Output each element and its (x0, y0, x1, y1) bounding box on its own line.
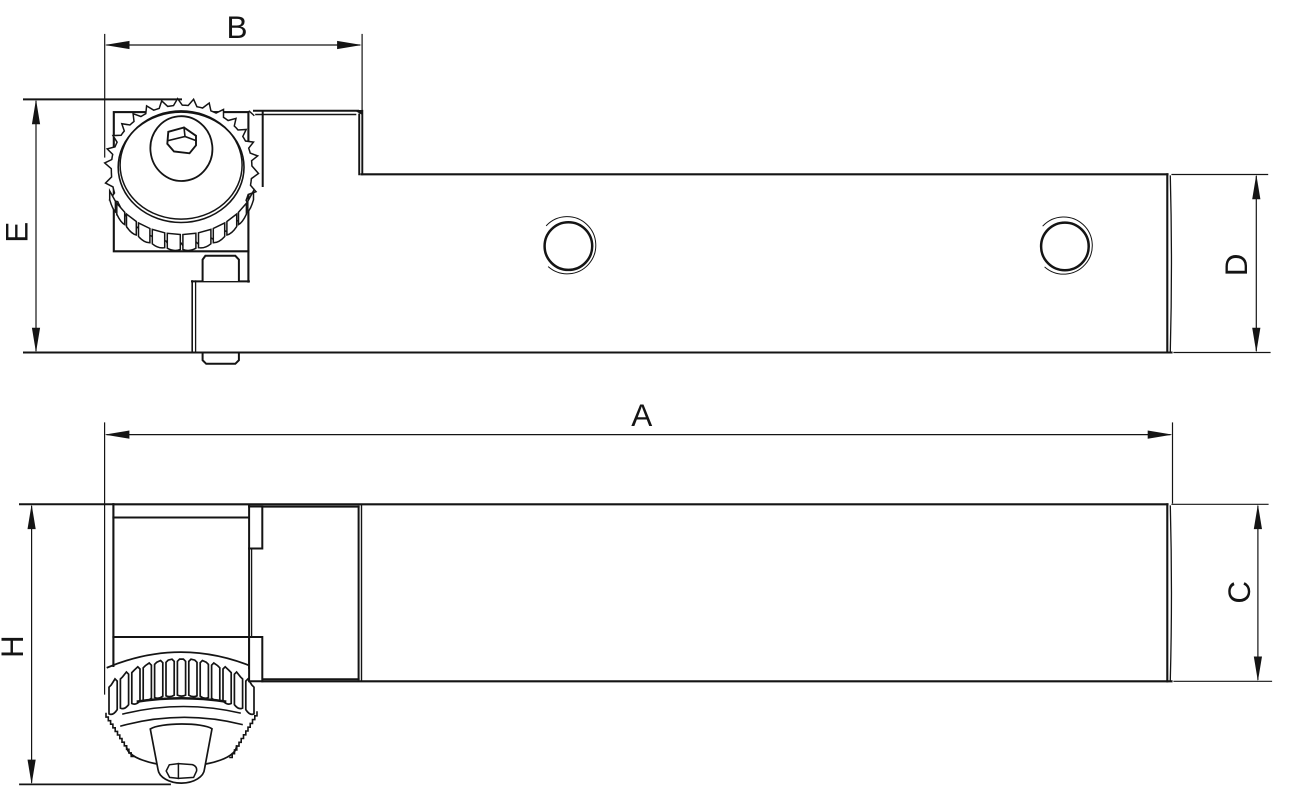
dimension B: left extension line (104, 35, 106, 158)
shank step section (bottom view): top edge (262, 506, 358, 508)
dimension E: bottom arrowhead (32, 328, 40, 353)
dimension C: top arrowhead (1254, 504, 1262, 529)
dimension D: bottom extension line (1174, 352, 1270, 354)
threaded hole 2 (top view): bore circle (1041, 223, 1089, 271)
main bar (top view): bottom edge (192, 351, 1172, 353)
knurled knob (bottom view): band bottom arc (138, 698, 225, 701)
clamp block (top view): lower-left double edge inner (195, 281, 197, 352)
knurled knob (bottom view): top arc (108, 652, 256, 668)
dimension B: left arrowhead (105, 41, 130, 49)
svg-text:E: E (0, 222, 35, 243)
dimension A: left extension line (104, 423, 106, 694)
head block (bottom view): right edge (248, 505, 250, 668)
dimension H: dimension line (31, 507, 33, 783)
shank step section (bottom view): right edge outer (361, 504, 363, 681)
dimension A: left arrowhead (105, 431, 130, 439)
dimension D: top arrowhead (1252, 175, 1260, 200)
knurled knob (bottom view): hex socket (166, 764, 196, 779)
dimension E: top arrowhead (32, 99, 40, 124)
dimension D: top extension line (1172, 174, 1268, 176)
threaded hole 2 (top view): thread arc (1043, 217, 1092, 274)
svg-text:A: A (631, 397, 652, 433)
knurled screw (top view): head rim outer ellipse (118, 112, 244, 222)
knurled screw (top view): head rim inner ellipse (120, 111, 242, 219)
main bar (bottom view): bottom edge (262, 680, 1171, 682)
clamp block (top view): square housing (114, 112, 249, 251)
main bar (top view): right end face (1166, 174, 1168, 352)
dimension H: bottom extension line (20, 783, 170, 785)
head block (bottom view): left edge (112, 504, 114, 666)
main bar (top view): top edge (361, 173, 1167, 175)
threaded hole 1 (top view): bore circle (545, 222, 593, 270)
main bar (bottom view): right end face (1166, 504, 1168, 681)
main bar (top view): right end chamfer arc (1170, 176, 1171, 351)
svg-text:C: C (1221, 581, 1257, 604)
gib strip (bottom view): inner thin edge (251, 549, 253, 637)
main bar (top view): bottom edge thin left extension (for E) (24, 352, 192, 354)
head step (top view): step vertical edge outer (361, 111, 363, 175)
svg-text:B: B (226, 9, 247, 45)
clamp block (top view): lower-left double edge outer (191, 281, 193, 352)
dimension H: bottom arrowhead (28, 760, 36, 785)
knurled knob (bottom view): rim arc 2 (121, 717, 242, 726)
knurled screw (top view): hex socket silhouette (167, 128, 196, 154)
head rear plate edge (top view) (262, 112, 264, 187)
knurled knob (bottom view): rim arc 1 (123, 706, 240, 714)
head block (bottom view): face bottom edge (113, 636, 249, 638)
dimension D: bottom arrowhead (1252, 328, 1260, 353)
gib strip (bottom view): top tab (249, 507, 262, 549)
head step (top view): upper step line (254, 110, 358, 112)
knurled knob (bottom view): knurl teeth (109, 659, 254, 714)
main bar (bottom view): top edge (113, 503, 1167, 505)
dimension C: bottom extension line (1174, 680, 1272, 682)
knurled screw (top view): hex socket prism edge (184, 128, 185, 137)
head step (top view): lower step line (256, 114, 356, 116)
shank step section (bottom view): right edge inner (358, 507, 360, 680)
knurled knob (bottom view): tip cone (150, 724, 212, 783)
main bar (bottom view): right end chamfer arc (1170, 506, 1171, 680)
knurled screw (top view): hex socket top face edge (169, 137, 196, 141)
head step (top view): step vertical edge inner (358, 115, 360, 175)
dimension C: top extension line (1172, 503, 1268, 505)
head step (top view): corner wedge (354, 110, 363, 115)
locating tab below bar (top view) (203, 354, 239, 364)
dimension A: right arrowhead (1148, 431, 1173, 439)
dimension H: top arrowhead (28, 504, 36, 529)
head block (bottom view): face top edge (113, 517, 249, 519)
knurled knob (bottom view): hex socket inner edge (177, 764, 179, 779)
dimension D: dimension line (1255, 177, 1257, 351)
dimension E: top extension line (24, 98, 181, 100)
dimension B: dimension line (107, 44, 360, 46)
dimension C: dimension line (1257, 506, 1259, 679)
gib strip (bottom view): bottom tab (over knurl) (249, 637, 262, 681)
svg-text:H: H (0, 635, 30, 658)
threaded hole 1 (top view): thread arc (547, 217, 596, 274)
knurled knob (bottom view): right staircase silhouette (230, 712, 257, 758)
knurled knob (bottom view): dome ellipse arc (127, 746, 237, 766)
dimension B: right arrowhead (337, 41, 362, 49)
knurled screw (top view): toothed silhouette (105, 99, 259, 250)
knurled screw (top view): countersink cone rim (147, 113, 215, 184)
dimension E: dimension line (35, 102, 37, 351)
svg-text:D: D (1218, 253, 1254, 276)
shank step section (bottom view): bottom edge (262, 678, 358, 680)
head step (top view): left chamfer diagonal (249, 111, 254, 115)
clamp screw below block (top view) (203, 256, 239, 281)
clamp block (top view): step line below block (192, 280, 249, 282)
dimension B: right extension line (361, 35, 363, 113)
knurled knob (bottom view): left staircase silhouette (106, 714, 134, 757)
knurled screw (top view): lower knurl band teeth (110, 191, 254, 251)
dimension C: bottom arrowhead (1254, 657, 1262, 682)
clamp block (top view): right edge lower extension (247, 251, 249, 281)
dimension A: right extension line (1172, 423, 1174, 503)
dimension A: dimension line (107, 434, 1170, 436)
main bar (bottom view): top edge thin left extension (for H) (20, 503, 113, 505)
